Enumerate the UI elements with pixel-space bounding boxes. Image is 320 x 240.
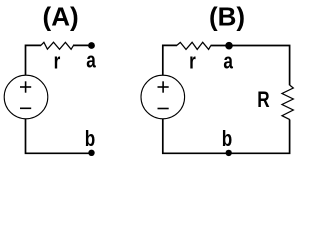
svg-text:(A): (A): [43, 1, 79, 31]
svg-text:a: a: [86, 49, 96, 74]
svg-text:R: R: [257, 88, 269, 113]
svg-text:(B): (B): [209, 1, 245, 31]
svg-text:b: b: [222, 127, 232, 152]
svg-text:r: r: [189, 49, 196, 74]
svg-text:r: r: [54, 49, 61, 74]
svg-text:b: b: [85, 127, 95, 152]
svg-text:a: a: [223, 49, 233, 74]
